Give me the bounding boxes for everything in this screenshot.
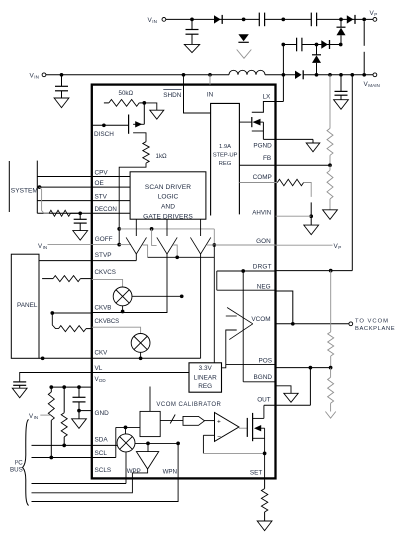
svg-text:CKV: CKV bbox=[95, 350, 109, 357]
svg-text:SCLS: SCLS bbox=[95, 467, 112, 474]
svg-text:IN: IN bbox=[43, 245, 48, 250]
svg-text:REG: REG bbox=[219, 161, 232, 167]
svg-text:50kΩ: 50kΩ bbox=[119, 90, 134, 97]
svg-text:VCOM CALIBRATOR: VCOM CALIBRATOR bbox=[156, 402, 221, 408]
svg-text:IN: IN bbox=[34, 415, 39, 420]
svg-text:CKVB: CKVB bbox=[95, 305, 112, 312]
svg-text:GON: GON bbox=[256, 238, 271, 245]
svg-text:PGND: PGND bbox=[253, 143, 272, 150]
svg-text:3.3V: 3.3V bbox=[199, 365, 213, 372]
svg-text:FB: FB bbox=[263, 155, 271, 162]
svg-text:LX: LX bbox=[262, 94, 271, 101]
svg-text:SDA: SDA bbox=[95, 437, 109, 444]
svg-text:COMP: COMP bbox=[253, 174, 272, 181]
svg-text:+: + bbox=[217, 418, 221, 425]
svg-text:WPP: WPP bbox=[127, 468, 141, 475]
svg-text:IN: IN bbox=[152, 19, 157, 24]
svg-text:DRGT: DRGT bbox=[253, 263, 272, 270]
svg-text:P: P bbox=[374, 12, 377, 17]
svg-text:OE: OE bbox=[95, 180, 104, 187]
svg-text:NEG: NEG bbox=[257, 283, 271, 290]
svg-text:P: P bbox=[338, 245, 341, 250]
svg-text:GND: GND bbox=[95, 410, 110, 417]
svg-text:STVP: STVP bbox=[95, 252, 112, 259]
svg-text:DISCH: DISCH bbox=[94, 131, 114, 138]
svg-text:POS: POS bbox=[259, 357, 273, 364]
svg-text:SCAN DRIVER: SCAN DRIVER bbox=[145, 184, 191, 191]
svg-text:1.9A: 1.9A bbox=[219, 144, 231, 150]
svg-text:GOFF: GOFF bbox=[95, 236, 113, 243]
svg-text:TO VCOM: TO VCOM bbox=[355, 319, 389, 325]
svg-text:GATE DRIVERS: GATE DRIVERS bbox=[143, 213, 193, 220]
svg-text:DD: DD bbox=[99, 378, 106, 383]
svg-text:CKVBCS: CKVBCS bbox=[95, 319, 120, 325]
svg-text:LINEAR: LINEAR bbox=[194, 375, 217, 382]
svg-text:VCOM: VCOM bbox=[251, 316, 270, 323]
svg-text:IN: IN bbox=[34, 75, 39, 80]
svg-text:WPN: WPN bbox=[163, 469, 177, 476]
svg-text:OUT: OUT bbox=[257, 397, 271, 404]
svg-text:SHDN: SHDN bbox=[163, 92, 181, 99]
svg-text:STEP-UP: STEP-UP bbox=[213, 153, 238, 159]
svg-text:LOGIC: LOGIC bbox=[158, 194, 179, 201]
svg-text:I²C: I²C bbox=[15, 460, 24, 467]
svg-text:CKVCS: CKVCS bbox=[95, 269, 116, 276]
svg-text:BUS: BUS bbox=[10, 467, 23, 474]
svg-text:DECON: DECON bbox=[95, 206, 117, 213]
svg-text:BACKPLANE: BACKPLANE bbox=[355, 326, 395, 332]
svg-text:−: − bbox=[217, 433, 221, 440]
svg-text:STV: STV bbox=[95, 193, 108, 200]
svg-text:SET: SET bbox=[250, 469, 263, 476]
svg-text:CPV: CPV bbox=[95, 170, 109, 177]
svg-text:REG: REG bbox=[198, 383, 212, 390]
svg-text:SCL: SCL bbox=[95, 450, 108, 457]
svg-text:BGND: BGND bbox=[254, 374, 273, 381]
svg-text:MAIN: MAIN bbox=[368, 83, 379, 88]
svg-text:AND: AND bbox=[161, 203, 175, 210]
svg-text:PANEL: PANEL bbox=[17, 302, 38, 309]
svg-text:AHVIN: AHVIN bbox=[252, 209, 271, 216]
svg-text:SYSTEM: SYSTEM bbox=[11, 188, 38, 195]
svg-text:1kΩ: 1kΩ bbox=[156, 153, 168, 160]
svg-text:IN: IN bbox=[207, 92, 214, 99]
svg-text:VL: VL bbox=[95, 365, 103, 372]
